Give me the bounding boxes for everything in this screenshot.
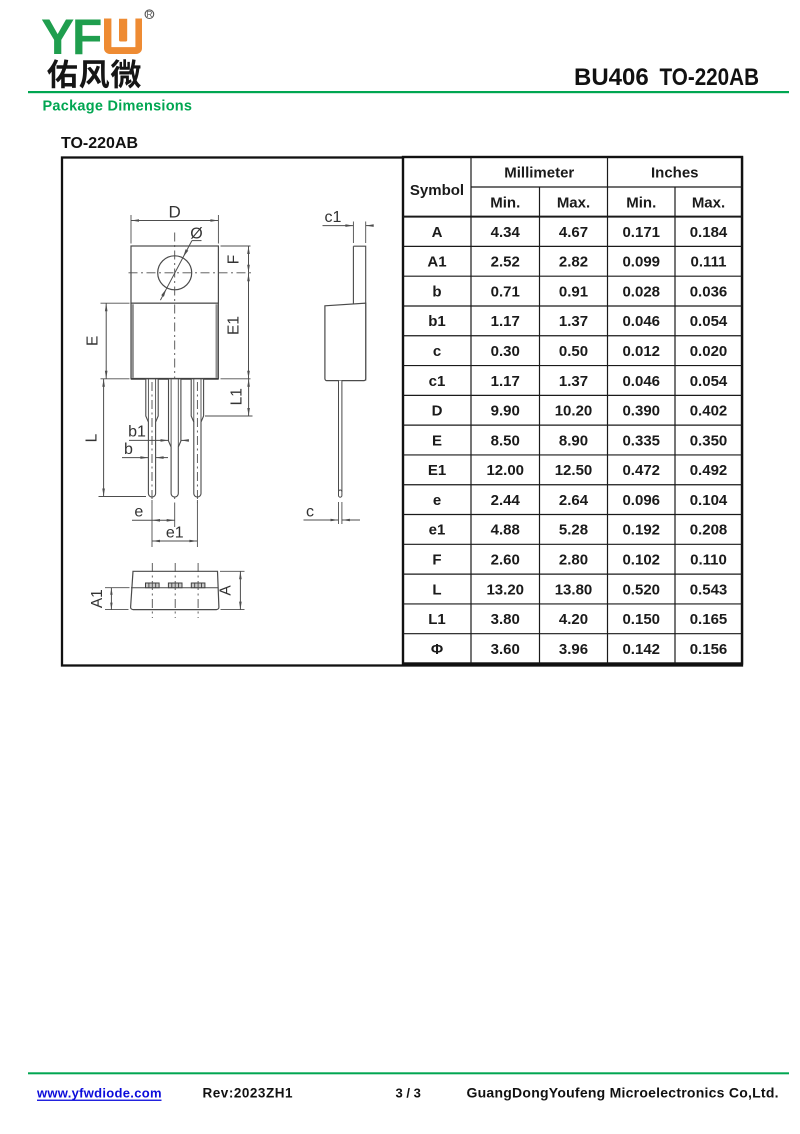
svg-text:b1: b1 xyxy=(128,424,146,441)
logo YFW xyxy=(41,9,154,65)
svg-text:0.104: 0.104 xyxy=(690,492,728,509)
svg-text:0.402: 0.402 xyxy=(690,403,728,420)
front view body xyxy=(131,303,218,379)
svg-text:2.60: 2.60 xyxy=(491,552,520,569)
svg-text:0.102: 0.102 xyxy=(622,552,660,569)
svg-text:2.44: 2.44 xyxy=(491,492,521,509)
svg-text:L: L xyxy=(83,433,100,442)
svg-text:e: e xyxy=(134,504,143,521)
svg-text:0.350: 0.350 xyxy=(690,432,728,449)
svg-text:4.20: 4.20 xyxy=(559,611,588,628)
bottom view center line 3 xyxy=(197,563,199,618)
dimension A xyxy=(220,570,245,572)
logo chinese characters xyxy=(47,59,77,88)
svg-text:0.036: 0.036 xyxy=(690,283,728,300)
svg-text:Max.: Max. xyxy=(692,194,725,211)
svg-text:3.96: 3.96 xyxy=(559,641,588,658)
svg-text:c1: c1 xyxy=(429,373,446,390)
svg-text:5.28: 5.28 xyxy=(559,522,588,539)
svg-text:F: F xyxy=(226,255,243,264)
svg-text:0.096: 0.096 xyxy=(622,492,660,509)
dimension A1 xyxy=(105,587,130,589)
svg-text:2.80: 2.80 xyxy=(559,552,588,569)
svg-text:A: A xyxy=(218,585,235,596)
side view tab bar xyxy=(353,246,365,380)
svg-text:Max.: Max. xyxy=(557,194,590,211)
dimension F xyxy=(221,245,251,247)
svg-text:0.020: 0.020 xyxy=(690,343,728,360)
svg-text:b: b xyxy=(124,441,133,458)
svg-text:E: E xyxy=(432,432,442,449)
svg-text:0.054: 0.054 xyxy=(690,313,728,330)
svg-text:0.171: 0.171 xyxy=(622,224,660,241)
dimension e1 xyxy=(196,500,198,547)
svg-text:0.046: 0.046 xyxy=(622,373,660,390)
svg-text:0.054: 0.054 xyxy=(690,373,728,390)
svg-text:0.111: 0.111 xyxy=(691,254,727,271)
lead 1 center line xyxy=(151,382,153,503)
svg-text:Symbol: Symbol xyxy=(410,182,464,199)
svg-text:0.099: 0.099 xyxy=(622,254,660,271)
dimension E xyxy=(101,302,130,304)
svg-text:13.20: 13.20 xyxy=(486,581,524,598)
lead 3 center line xyxy=(196,382,198,503)
svg-text:1.17: 1.17 xyxy=(491,373,520,390)
svg-text:0.71: 0.71 xyxy=(491,283,520,300)
svg-text:0.165: 0.165 xyxy=(690,611,728,628)
green footer rule xyxy=(28,1072,789,1074)
svg-text:0.192: 0.192 xyxy=(622,522,660,539)
svg-text:4.34: 4.34 xyxy=(491,224,521,241)
svg-text:e1: e1 xyxy=(429,522,446,539)
svg-text:b1: b1 xyxy=(428,313,446,330)
table grid lines xyxy=(403,157,742,664)
bottom view lead 3 section xyxy=(191,583,205,588)
svg-text:8.90: 8.90 xyxy=(559,432,588,449)
dimension b1 xyxy=(129,439,169,441)
svg-text:D: D xyxy=(168,203,180,222)
svg-text:0.520: 0.520 xyxy=(622,581,660,598)
svg-text:0.184: 0.184 xyxy=(690,224,728,241)
svg-text:Φ: Φ xyxy=(431,641,443,658)
table header text xyxy=(410,165,725,212)
svg-text:Ø: Ø xyxy=(190,226,202,243)
svg-text:8.50: 8.50 xyxy=(491,432,520,449)
svg-text:2.52: 2.52 xyxy=(491,254,520,271)
bottom view lead 2 section xyxy=(168,583,182,588)
bottom view center line 2 xyxy=(174,563,176,618)
svg-text:13.80: 13.80 xyxy=(555,581,593,598)
table body text xyxy=(427,224,728,658)
hole center line horizontal xyxy=(129,272,253,274)
bottom view lead 1 section xyxy=(146,583,160,588)
svg-text:F: F xyxy=(432,552,441,569)
svg-text:0.150: 0.150 xyxy=(622,611,660,628)
svg-text:Millimeter: Millimeter xyxy=(504,165,574,182)
svg-text:0.208: 0.208 xyxy=(690,522,728,539)
svg-text:E: E xyxy=(85,336,102,346)
svg-text:D: D xyxy=(432,403,443,420)
svg-text:0.472: 0.472 xyxy=(622,462,660,479)
dimension c1 xyxy=(352,222,354,244)
svg-text:GuangDongYoufeng Microelectron: GuangDongYoufeng Microelectronics Co,Ltd… xyxy=(467,1084,779,1100)
front view tab xyxy=(131,246,218,303)
svg-text:TO-220AB: TO-220AB xyxy=(660,64,760,91)
svg-text:Inches: Inches xyxy=(651,165,699,182)
green header rule xyxy=(28,91,789,93)
svg-text:1.37: 1.37 xyxy=(559,313,588,330)
dimension b xyxy=(122,457,148,459)
svg-text:Package Dimensions: Package Dimensions xyxy=(43,99,193,115)
bottom view outline xyxy=(131,571,219,609)
svg-text:TO-220AB: TO-220AB xyxy=(61,135,138,152)
svg-text:3 / 3: 3 / 3 xyxy=(396,1085,421,1100)
svg-text:c: c xyxy=(306,504,314,521)
bottom view center line 1 xyxy=(151,563,153,618)
svg-text:BU406: BU406 xyxy=(574,64,649,91)
svg-text:0.028: 0.028 xyxy=(622,283,660,300)
bottom view step line xyxy=(131,587,219,589)
svg-text:E1: E1 xyxy=(428,462,446,479)
svg-text:www.yfwdiode.com: www.yfwdiode.com xyxy=(36,1085,162,1100)
svg-text:A: A xyxy=(432,224,443,241)
svg-text:Min.: Min. xyxy=(490,194,520,211)
dimension c xyxy=(338,502,340,524)
svg-text:0.30: 0.30 xyxy=(491,343,520,360)
dimension E1 xyxy=(221,378,251,380)
svg-text:Rev:2023ZH1: Rev:2023ZH1 xyxy=(203,1085,293,1100)
side view body xyxy=(325,303,366,380)
svg-text:0.142: 0.142 xyxy=(622,641,660,658)
svg-text:9.90: 9.90 xyxy=(491,403,520,420)
mounting hole xyxy=(158,256,192,290)
svg-text:A1: A1 xyxy=(427,254,446,271)
svg-text:A1: A1 xyxy=(89,589,106,608)
svg-text:12.50: 12.50 xyxy=(555,462,593,479)
svg-text:0.492: 0.492 xyxy=(690,462,728,479)
svg-text:YF: YF xyxy=(41,9,101,65)
lead 3 front xyxy=(191,379,203,497)
svg-text:4.88: 4.88 xyxy=(491,522,520,539)
lead 1 front xyxy=(146,379,158,497)
svg-text:e1: e1 xyxy=(166,525,184,542)
svg-text:L: L xyxy=(432,581,441,598)
svg-text:4.67: 4.67 xyxy=(559,224,588,241)
dimension L1 xyxy=(205,415,253,417)
dimension L xyxy=(99,496,147,498)
svg-text:L1: L1 xyxy=(228,388,245,405)
svg-text:3.80: 3.80 xyxy=(491,611,520,628)
svg-text:0.156: 0.156 xyxy=(690,641,728,658)
hole diameter leader xyxy=(160,241,192,301)
svg-text:3.60: 3.60 xyxy=(491,641,520,658)
svg-text:0.91: 0.91 xyxy=(559,283,588,300)
svg-text:e: e xyxy=(433,492,441,509)
dimension D xyxy=(131,220,218,222)
svg-text:1.37: 1.37 xyxy=(559,373,588,390)
svg-text:0.110: 0.110 xyxy=(690,552,727,569)
svg-text:1.17: 1.17 xyxy=(491,313,520,330)
svg-text:0.543: 0.543 xyxy=(690,581,728,598)
svg-text:2.64: 2.64 xyxy=(559,492,589,509)
drawing frame box xyxy=(62,158,742,666)
svg-text:Min.: Min. xyxy=(626,194,656,211)
svg-text:10.20: 10.20 xyxy=(555,403,593,420)
package center line vertical xyxy=(174,233,176,506)
svg-text:c: c xyxy=(433,343,441,360)
svg-text:0.046: 0.046 xyxy=(622,313,660,330)
dimension e xyxy=(151,500,153,527)
svg-text:0.390: 0.390 xyxy=(622,403,660,420)
svg-text:0.012: 0.012 xyxy=(622,343,660,360)
svg-text:0.50: 0.50 xyxy=(559,343,588,360)
svg-text:R: R xyxy=(146,10,152,19)
side view lead xyxy=(339,381,342,498)
svg-text:12.00: 12.00 xyxy=(486,462,524,479)
svg-text:E1: E1 xyxy=(226,316,243,335)
svg-text:b: b xyxy=(432,283,441,300)
svg-text:L1: L1 xyxy=(428,611,446,628)
svg-text:c1: c1 xyxy=(325,209,342,226)
svg-text:2.82: 2.82 xyxy=(559,254,588,271)
lead 2 front xyxy=(169,379,181,497)
svg-text:0.335: 0.335 xyxy=(622,432,660,449)
